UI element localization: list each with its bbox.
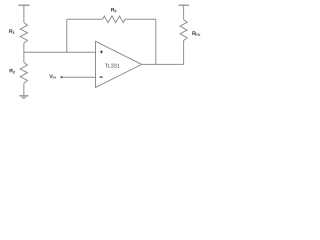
wire — [23, 83, 25, 96]
source Vin terminal dot — [60, 76, 62, 78]
wire — [23, 52, 25, 62]
feedback wire left vertical — [66, 19, 68, 52]
svg-text:1: 1 — [13, 31, 15, 35]
resistor RPU — [180, 20, 201, 41]
resistor R2 — [9, 62, 27, 83]
wire RPU to output — [183, 41, 185, 65]
op-amp U1 TL331 — [96, 41, 142, 87]
node A wire to + input — [24, 51, 96, 53]
feedback wire right vertical — [155, 19, 157, 64]
op-amp + input symbol — [100, 50, 103, 53]
wire — [183, 5, 185, 19]
ground — [19, 96, 29, 99]
output wire — [142, 63, 184, 65]
power VCC right — [178, 4, 189, 6]
feedback wire top right — [125, 18, 156, 20]
resistor RF — [102, 8, 125, 23]
svg-text:PU: PU — [195, 33, 200, 37]
resistor R1 — [9, 23, 28, 44]
Vin label — [49, 74, 56, 80]
svg-text:in: in — [53, 75, 57, 79]
svg-text:F: F — [115, 9, 118, 13]
svg-text:2: 2 — [13, 71, 15, 75]
feedback wire top left — [67, 18, 103, 20]
wire — [23, 5, 25, 22]
power VCC left — [18, 4, 29, 6]
wire — [23, 43, 25, 52]
svg-text:TL331: TL331 — [105, 64, 120, 70]
wire Vin to - input — [62, 76, 96, 78]
op-amp - input symbol — [100, 76, 103, 78]
